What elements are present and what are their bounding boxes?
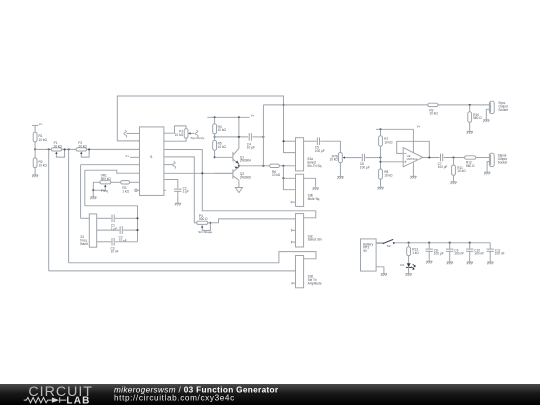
svg-text:S1FreqBand: S1FreqBand	[80, 235, 88, 246]
sync socket ground	[483, 109, 489, 122]
ground below R11	[450, 175, 456, 184]
svg-text:C9100 nF: C9100 nF	[454, 248, 464, 255]
svg-text:Freq: Freq	[101, 189, 108, 193]
ground below R8	[377, 179, 383, 189]
junction R4/R5 midpoint	[214, 134, 216, 140]
ground below R7B	[337, 163, 343, 179]
svg-text:R510 kΩ: R510 kΩ	[218, 142, 227, 149]
potentiometer VR1 frequency	[100, 174, 111, 184]
transistor Q1 2N3904 NPN	[233, 148, 251, 165]
svg-text:P220 kΩ: P220 kΩ	[78, 141, 87, 148]
svg-text:SyncOutputSocket: SyncOutputSocket	[498, 101, 508, 112]
op-amp feedback loop	[397, 141, 430, 157]
signal socket ground	[484, 162, 490, 175]
svg-text:S2: S2	[387, 244, 391, 248]
resistor R7	[379, 129, 394, 146]
wire emitter node output	[238, 165, 270, 167]
wire IC pin 5 from S1 common	[81, 164, 138, 166]
resistor R5	[213, 140, 227, 150]
capacitor C11 100nF	[487, 243, 505, 262]
S3d left stub	[292, 282, 296, 284]
wire top loop IC pin2 to S3a	[117, 96, 295, 153]
svg-text:R7B10 kΩ: R7B10 kΩ	[330, 154, 339, 161]
op-amp ground pin	[410, 163, 416, 179]
wire IC pin4R to P4	[166, 157, 197, 223]
wire S3a left pin1 branch	[282, 140, 295, 142]
power rail battery	[395, 242, 491, 244]
wire down to S3b pins	[282, 166, 295, 190]
sync output socket J1	[489, 101, 508, 114]
potentiometer P4	[197, 214, 208, 225]
P3 wiper to symmetry test point	[188, 131, 205, 141]
IC pin 8 connector bubble	[135, 189, 137, 191]
wire IC pin3R sine to S3c staple	[166, 150, 316, 218]
junction op-amp + input	[379, 161, 381, 163]
wire R5 to Q1 base	[214, 150, 233, 158]
svg-text:R410 kΩ: R410 kΩ	[218, 125, 227, 132]
junction R4 top	[214, 116, 216, 118]
wire IC pin1R to P3 top	[166, 126, 186, 133]
wire C7 to R11 junction	[444, 156, 465, 158]
S3b right pin to ground	[304, 178, 319, 190]
power rail V+ op-amp	[376, 124, 421, 130]
resistor R12	[465, 156, 476, 168]
resistor R1	[33, 132, 47, 142]
wire R7 to junction	[380, 146, 382, 169]
ground below C2	[175, 191, 181, 205]
svg-text:I1: I1	[150, 155, 153, 159]
capacitor C9 100nF	[446, 242, 464, 262]
no-connect squiggle IC pin 1	[124, 131, 138, 138]
power rail V+ transistors	[207, 113, 254, 117]
LED D1	[400, 256, 415, 270]
svg-text:C410 μF: C410 μF	[247, 142, 255, 149]
svg-text:R1110 kΩ: R1110 kΩ	[457, 166, 466, 173]
IC I1 pin stubs	[138, 133, 166, 190]
VR1 wiper to ground	[92, 185, 107, 194]
vertical wire cap bank common	[84, 170, 86, 206]
switch S2	[376, 239, 395, 247]
P2 wiper loop	[80, 148, 90, 157]
wire from divider to S3d right (wrap A)	[69, 149, 316, 262]
svg-text:C5100 μF: C5100 μF	[315, 146, 325, 153]
ground below R2	[32, 168, 38, 178]
resistor R2	[33, 149, 47, 167]
wire R12 to signal socket	[476, 157, 490, 159]
svg-text:C10100 nF: C10100 nF	[474, 248, 484, 255]
signal output socket J2	[489, 153, 507, 166]
battery V1 PP3 9V	[361, 239, 377, 271]
wire R6 to S3a pin3	[279, 165, 295, 167]
svg-text:V+: V+	[417, 124, 421, 128]
capacitor C5 100uF	[315, 137, 325, 152]
potentiometer P1	[51, 141, 62, 151]
resistor R13	[407, 243, 420, 256]
capacitor C3 10nF	[97, 238, 138, 254]
resistor R4	[213, 117, 227, 134]
op-amp IC I1 function generator chip	[140, 127, 164, 195]
resistor R10	[468, 105, 483, 122]
wire IC pin7R to C2	[166, 180, 178, 189]
svg-text:C6100 μF: C6100 μF	[360, 162, 370, 169]
svg-text:C8100 μF: C8100 μF	[434, 248, 444, 255]
VR1 left terminal to ground junction	[93, 182, 100, 190]
switch S3b mute sq	[296, 174, 321, 206]
ground below C10	[467, 262, 473, 264]
svg-text:R610 kΩ: R610 kΩ	[272, 170, 281, 177]
wire R1 to node	[34, 142, 36, 150]
rheostat R7B	[330, 153, 343, 163]
wire op-amp output	[423, 156, 440, 158]
svg-text:S3cSelect Sin: S3cSelect Sin	[308, 234, 322, 241]
transistor Q2 2N3906 PNP	[233, 166, 251, 181]
junction sync line crosses S3a feed	[282, 104, 284, 106]
junction R13	[408, 242, 410, 244]
op-amp U2 LM741L	[403, 148, 423, 167]
svg-text:P310 kΩ: P310 kΩ	[175, 129, 184, 136]
wire C5 to R7B	[320, 141, 340, 152]
ground below C11	[487, 262, 493, 264]
svg-text:SignalOutputSocket: SignalOutputSocket	[498, 154, 508, 165]
P3 bottom return to IC pin2R	[166, 138, 186, 141]
potentiometer P3 symmetry	[175, 129, 188, 138]
resistor R3	[111, 181, 130, 194]
potentiometer P2	[76, 141, 87, 151]
svg-text:P4500 Ω: P4500 Ω	[199, 214, 208, 221]
vertical wire S1 common	[80, 165, 82, 219]
svg-text:VR1500 kΩ: VR1500 kΩ	[101, 174, 112, 181]
wire P4 to S3c left	[208, 219, 296, 223]
S3c left stubs	[292, 229, 296, 243]
wire IC pin 6 from cap bank	[85, 170, 138, 173]
no-connect squiggle IC pin 5R	[166, 162, 176, 169]
wire IC pin6R to Q2 base	[166, 172, 233, 174]
ground below R10	[467, 122, 473, 133]
svg-text:R710 kΩ: R710 kΩ	[384, 137, 393, 144]
node R1/R2 junction	[34, 148, 36, 150]
earth ground triangle below Q2	[235, 188, 242, 193]
capacitor C2 1uF	[174, 186, 189, 193]
power V+ supply top-left	[32, 122, 43, 132]
svg-text:V+: V+	[125, 154, 129, 158]
switch S3c select sin	[296, 214, 322, 247]
ground below C9	[447, 262, 453, 264]
svg-text:R10560 Ω: R10560 Ω	[473, 113, 482, 120]
wire C4 to sync riser	[252, 136, 264, 138]
svg-text:http://circuitlab.com/cxy3e4c: http://circuitlab.com/cxy3e4c	[114, 394, 235, 403]
capacitor C4 10uF	[247, 133, 255, 150]
sync riser vertical	[262, 105, 264, 166]
junction dot left of P1	[48, 148, 50, 150]
sync line	[263, 104, 427, 106]
wire C6 to divider	[365, 157, 381, 159]
resistor R9	[428, 103, 439, 115]
switch S3a select sin-tri-sq	[296, 138, 322, 171]
wire S3a right to C5	[304, 140, 317, 142]
svg-text:P120 kΩ: P120 kΩ	[54, 141, 63, 148]
svg-text:R131 kΩ: R131 kΩ	[412, 248, 419, 255]
wire battery + to switch	[376, 242, 383, 244]
switch S1 freq band	[80, 214, 96, 247]
label Sin Shape under P4	[198, 230, 212, 234]
svg-text:R210 kΩ: R210 kΩ	[39, 160, 48, 168]
capacitor C10 100nF	[466, 242, 484, 262]
wire midpoint to C4	[215, 136, 249, 138]
wire V+ to IC pin 4	[125, 154, 137, 158]
wire R9 to sync socket	[438, 104, 490, 106]
cap bank right rail	[85, 206, 139, 242]
wire R3 to IC pin 7	[130, 181, 138, 183]
capacitor C6 100uF	[360, 154, 370, 170]
svg-text:S3bMute Sq.: S3bMute Sq.	[308, 194, 321, 201]
logo resistor-diode symbol	[24, 397, 52, 402]
ground below D1	[406, 267, 412, 276]
capacitor C1 1uF	[97, 215, 138, 231]
svg-text:Q22N3906: Q22N3906	[240, 172, 251, 179]
junction Q1 collector rail	[238, 116, 240, 118]
svg-text:V+: V+	[251, 113, 255, 117]
wire Q1 collector to rail	[238, 117, 240, 148]
svg-text:Sin Shape: Sin Shape	[198, 230, 212, 234]
S3b left stub	[291, 201, 295, 203]
capacitor C7 100uF	[438, 154, 448, 169]
capacitor C2 22nF	[97, 226, 138, 243]
junction dot right of P1	[68, 148, 70, 150]
resistor R8	[379, 169, 394, 179]
ground below VR1	[90, 190, 96, 199]
svg-text:S3dSel TriAmplitude: S3dSel TriAmplitude	[308, 275, 322, 286]
svg-text:C21 μF: C21 μF	[183, 186, 189, 193]
svg-text:R910 kΩ: R910 kΩ	[429, 108, 438, 115]
ground below C8	[426, 261, 432, 263]
svg-text:R110 kΩ: R110 kΩ	[39, 134, 48, 142]
svg-text:C310 nF: C310 nF	[111, 246, 119, 253]
P4 wiper loop	[201, 222, 211, 231]
wire to op-amp non-inverting input	[381, 161, 404, 163]
wire from divider to S3d left (wrap B)	[49, 149, 296, 271]
svg-text:LAB: LAB	[66, 395, 90, 405]
capacitor C8 100uF	[426, 242, 444, 261]
battery - to ground	[376, 267, 387, 276]
svg-text:Q12N3904: Q12N3904	[240, 155, 251, 162]
switch S3d tri amplitude	[296, 256, 322, 288]
svg-text:Symmetry: Symmetry	[191, 136, 205, 140]
svg-text:V+: V+	[39, 122, 43, 126]
svg-text:C7100 μF: C7100 μF	[438, 162, 448, 169]
svg-text:D1: D1	[400, 263, 404, 267]
op-amp V+ pin	[412, 129, 414, 152]
svg-text:C11100 nF: C11100 nF	[495, 248, 505, 255]
wire Q2 base	[215, 172, 233, 174]
svg-text:R12560 Ω: R12560 Ω	[466, 161, 475, 168]
wire main divider rail	[35, 148, 139, 150]
svg-text:R31 kΩ: R31 kΩ	[122, 186, 129, 193]
wire Q2 collector to ground	[238, 180, 240, 187]
resistor R11	[452, 158, 467, 176]
svg-text:S3aSelectSin-Tri-Sq: S3aSelectSin-Tri-Sq	[307, 157, 321, 168]
R7B wiper to C6	[343, 156, 362, 158]
resistor R6	[270, 164, 281, 177]
P1 wiper loop	[55, 148, 65, 157]
svg-text:R810 kΩ: R810 kΩ	[384, 170, 393, 177]
